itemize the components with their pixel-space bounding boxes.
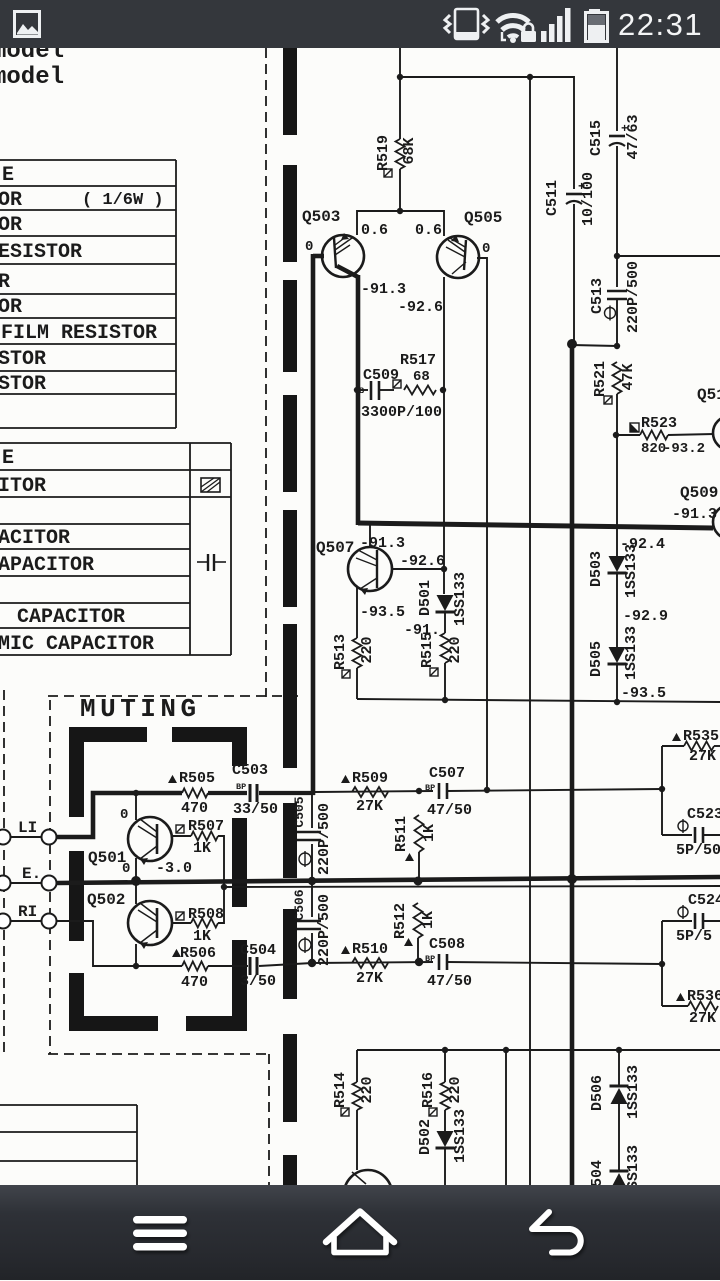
wire Q503 collector diagonal thick — [337, 266, 358, 277]
svg-text:3/50: 3/50 — [240, 973, 276, 990]
wire C515 down — [616, 146, 618, 256]
svg-text:C524: C524 — [688, 892, 720, 909]
wire thick E bus — [57, 877, 720, 883]
svg-text:R521: R521 — [592, 361, 609, 397]
svg-text:MIC CAPACITOR: MIC CAPACITOR — [0, 633, 154, 656]
node bracket R535 — [659, 786, 665, 792]
wire Q505 collector down — [443, 277, 445, 594]
svg-text:C508: C508 — [429, 936, 465, 953]
wire C511 down — [573, 204, 575, 344]
wire R535 lead — [662, 745, 684, 747]
wire R506 to C504 — [208, 965, 248, 967]
wire Q501 base to R507 — [172, 835, 191, 837]
node C513 bottom — [614, 343, 620, 349]
label R519 marker — [384, 169, 392, 177]
node thick supply corner — [567, 339, 577, 349]
svg-text:0: 0 — [305, 239, 313, 255]
wire RI to R506 corner — [57, 921, 136, 966]
wire D506 to D504 — [618, 1104, 620, 1171]
node R523 junction — [613, 432, 619, 438]
transistor Q504 partial — [344, 1170, 392, 1218]
svg-text:R509: R509 — [352, 770, 388, 787]
svg-text:C513: C513 — [589, 278, 606, 314]
svg-text:R519: R519 — [375, 135, 392, 171]
dashed muting region left edge — [49, 700, 51, 1054]
wire RI terminal link — [11, 920, 41, 922]
wire D503 to D505 — [616, 574, 618, 647]
node bracket C524 — [659, 961, 665, 967]
label R510 — [341, 946, 350, 954]
terminal LI inner — [42, 830, 57, 845]
label R512 marker — [404, 938, 413, 946]
wire x617 bus crossing — [616, 435, 618, 556]
resistor R508 — [191, 919, 218, 928]
symbol electrolytic cap in legend — [201, 478, 220, 492]
svg-text:ACITOR: ACITOR — [0, 527, 70, 550]
wire bracket C524 R536 — [661, 921, 663, 1006]
icon vibrate — [455, 9, 478, 39]
label R535 — [672, 733, 681, 741]
resistor R523 — [640, 431, 668, 440]
svg-text:+: + — [621, 122, 628, 136]
svg-text:220: 220 — [359, 1076, 376, 1103]
heavy dashed shield line vertical — [283, 44, 297, 1185]
icon wifi with lock — [497, 16, 529, 37]
svg-text:22:31: 22:31 — [618, 7, 703, 42]
svg-text:Q503: Q503 — [302, 208, 340, 226]
label R506 — [172, 949, 181, 957]
capacitor C524 — [694, 913, 697, 929]
dashed border vertical bottom right — [268, 1054, 270, 1185]
wire C508 right — [447, 962, 662, 964]
svg-text:MUTING: MUTING — [80, 694, 201, 724]
svg-text:R511: R511 — [393, 816, 410, 852]
svg-text:BP: BP — [425, 954, 435, 964]
svg-text:470: 470 — [181, 974, 208, 991]
capacitor C523 — [694, 827, 697, 843]
svg-text:-92.6: -92.6 — [398, 299, 443, 316]
capacitor C506 — [297, 920, 321, 923]
svg-text:Q501: Q501 — [88, 849, 126, 867]
wire Q501 emitter to bus — [135, 858, 137, 881]
svg-text:R508: R508 — [188, 906, 224, 923]
wire R523 to Q511 — [668, 434, 714, 435]
wire R507 to junction — [218, 836, 224, 887]
diode D502 — [437, 1131, 454, 1147]
wire C523 right — [703, 834, 720, 836]
svg-text:-93.5: -93.5 — [360, 604, 405, 621]
svg-text:47/50: 47/50 — [427, 802, 472, 819]
svg-text:Q509: Q509 — [680, 484, 718, 502]
svg-text:C504: C504 — [240, 942, 276, 959]
svg-text:R523: R523 — [641, 415, 677, 432]
svg-text:C503: C503 — [232, 762, 268, 779]
nav icon home — [326, 1212, 394, 1253]
transistor Q501 — [128, 817, 172, 865]
label R515 marker — [430, 668, 438, 676]
svg-text:STOR: STOR — [0, 348, 46, 371]
svg-text:-92.6: -92.6 — [400, 553, 445, 570]
dashed left page edge — [3, 690, 5, 1052]
svg-text:47K: 47K — [620, 363, 637, 390]
svg-text:-91.3: -91.3 — [360, 535, 405, 552]
resistor R510 — [352, 958, 388, 968]
wire thick supply down — [570, 344, 575, 1185]
table bottom left — [0, 1105, 137, 1185]
wire Q505 emitter right — [477, 258, 487, 790]
terminal E outer — [0, 876, 11, 891]
wire R515 bottom — [444, 663, 446, 700]
label C523 marker — [678, 821, 688, 831]
label R536 — [676, 993, 685, 1001]
svg-text:R535: R535 — [683, 728, 719, 745]
svg-text:D503: D503 — [588, 551, 605, 587]
wire R514 to Q504 — [356, 1110, 358, 1170]
wire C524 right — [703, 920, 720, 922]
capacitor C505 — [297, 831, 321, 834]
resistor R515 — [441, 633, 450, 663]
svg-text:220P/500: 220P/500 — [316, 803, 333, 875]
wire LI thick to corner — [57, 793, 182, 837]
dashed muting region top edge — [48, 695, 303, 697]
wire to C513 — [616, 256, 618, 287]
wire Q503 emitter thick left — [313, 254, 324, 259]
node Q501-Q502 bus junction — [131, 876, 141, 886]
svg-text:ESISTOR: ESISTOR — [0, 241, 82, 264]
svg-text:220: 220 — [447, 1076, 464, 1103]
resistor R512 — [414, 903, 423, 938]
svg-text:-93.2: -93.2 — [663, 441, 705, 457]
capacitor C511 — [566, 193, 582, 196]
svg-text:BP: BP — [425, 783, 435, 793]
wire C507 right — [447, 789, 662, 791]
resistor R514 — [353, 1082, 362, 1110]
transistor Q503 — [322, 233, 364, 277]
svg-text:220: 220 — [447, 636, 464, 663]
label C513 marker — [605, 308, 616, 319]
terminal LI outer — [0, 830, 11, 845]
icon signal bars — [541, 8, 571, 42]
svg-text:68K: 68K — [401, 137, 418, 164]
terminal RI outer — [0, 914, 11, 929]
diode D504 partial — [610, 1170, 629, 1173]
capacitor C507 — [425, 783, 447, 799]
svg-text:RI: RI — [18, 903, 37, 921]
node y256 — [614, 253, 620, 259]
wire D505 down — [616, 665, 618, 702]
svg-text:220P/500: 220P/500 — [316, 894, 333, 966]
resistor R505 — [182, 789, 208, 798]
svg-text:( 1/6W ): ( 1/6W ) — [82, 191, 164, 210]
resistor R519 — [396, 139, 405, 169]
svg-text:LI: LI — [18, 819, 37, 837]
svg-text:27K: 27K — [689, 1010, 716, 1027]
wire D506 top lead — [618, 1050, 620, 1086]
svg-text:R507: R507 — [188, 818, 224, 835]
label R521 marker — [604, 396, 612, 404]
wire C523 lead — [662, 834, 692, 836]
diode D503 — [609, 556, 626, 572]
svg-text:R512: R512 — [392, 903, 409, 939]
wire C524 lead — [662, 920, 692, 922]
label R514 marker — [341, 1108, 349, 1116]
svg-text:C523: C523 — [687, 806, 720, 823]
svg-text:-91.3: -91.3 — [672, 506, 717, 523]
wire node line y790 — [315, 791, 433, 792]
dashed muting region bottom edge — [48, 1053, 269, 1055]
label R508 marker — [176, 912, 184, 920]
capacitor C504 — [250, 957, 257, 975]
node Q502 emitter junction — [133, 963, 139, 969]
capacitor C503 — [236, 782, 257, 802]
svg-text:27K: 27K — [356, 798, 383, 815]
node base split — [397, 208, 403, 214]
label C524 marker — [678, 907, 688, 917]
svg-text:5P/50: 5P/50 — [676, 842, 720, 859]
svg-text:5P/5: 5P/5 — [676, 928, 712, 945]
node R514 corner — [356, 1050, 358, 1082]
wire node line y963 — [312, 962, 433, 963]
wire R535 right — [714, 745, 720, 747]
svg-text:R506: R506 — [180, 945, 216, 962]
svg-text:R514: R514 — [332, 1072, 349, 1108]
label C505 marker — [299, 853, 311, 865]
svg-text:R515: R515 — [419, 632, 436, 668]
transistor Q505 — [437, 235, 479, 278]
node R517 right — [440, 387, 446, 393]
wire C515 top — [616, 44, 618, 131]
wire Q502 emitter — [135, 944, 137, 966]
wire C505 bottom — [311, 844, 313, 881]
svg-text:1SS133: 1SS133 — [452, 572, 469, 626]
svg-text:0: 0 — [120, 807, 128, 823]
svg-text:R510: R510 — [352, 941, 388, 958]
resistor R509 — [352, 787, 388, 797]
resistor R506 — [182, 962, 208, 971]
svg-text:D502: D502 — [417, 1119, 434, 1155]
svg-text:33/50: 33/50 — [233, 801, 278, 818]
wire thick bus mid — [358, 523, 713, 528]
wire node right y256 — [617, 255, 720, 257]
wire D501 to R515 — [444, 613, 446, 633]
svg-text:OR: OR — [0, 189, 22, 212]
svg-text:+: + — [578, 180, 585, 194]
wire C513 down — [616, 299, 618, 346]
resistor R517 — [404, 386, 436, 395]
wire C505 top — [311, 795, 313, 828]
icon gallery — [0, 0, 720, 48]
wire C506 bottom — [311, 933, 313, 963]
wire thick vertical to bus corner — [356, 275, 361, 525]
svg-text:C505: C505 — [292, 796, 307, 827]
table capacitor legend text — [0, 447, 154, 656]
resistor R507 — [191, 832, 218, 841]
wire to R506 — [136, 965, 182, 967]
svg-text:BP: BP — [236, 782, 246, 792]
node R511 top — [416, 788, 422, 794]
svg-text:R513: R513 — [332, 634, 349, 670]
svg-text:D505: D505 — [588, 641, 605, 677]
label C506 marker — [299, 939, 311, 951]
svg-text:Q51: Q51 — [697, 386, 720, 404]
label R507 marker — [176, 825, 184, 833]
wire bracket R535 C523 — [661, 746, 663, 835]
diode D501 — [437, 595, 454, 611]
wire R511 bottom — [418, 852, 420, 881]
resistor R511 — [415, 815, 424, 852]
svg-text:1K: 1K — [193, 840, 211, 857]
wire R505 to C503 thick — [208, 791, 247, 795]
wire R523 left lead — [616, 434, 640, 436]
svg-text:0: 0 — [122, 861, 130, 877]
wire R508 to junction — [218, 889, 224, 923]
svg-text:0.6: 0.6 — [361, 222, 388, 239]
svg-text:-93.5: -93.5 — [621, 685, 666, 702]
wire E terminal link — [11, 882, 41, 884]
svg-text:1K: 1K — [193, 928, 211, 945]
node Q505 emitter bottom — [484, 787, 490, 793]
svg-text:R505: R505 — [179, 770, 215, 787]
svg-text:B: B — [359, 386, 364, 396]
svg-text:27K: 27K — [689, 748, 716, 765]
svg-text:220: 220 — [359, 636, 376, 663]
wire LI terminal link — [11, 836, 41, 838]
wire R516 top lead — [444, 1050, 446, 1082]
svg-text:470: 470 — [181, 800, 208, 817]
svg-text:C511: C511 — [544, 180, 561, 216]
wire long vertical x531 — [529, 77, 531, 1185]
wire R536 lead — [662, 1005, 688, 1007]
capacitor C509 — [359, 381, 394, 400]
svg-text:-92.9: -92.9 — [623, 608, 668, 625]
wire R513 bottom — [356, 668, 358, 699]
svg-text:D506: D506 — [589, 1075, 606, 1111]
node C509 left on thick wire — [354, 387, 360, 393]
wire Q502 collector to bus — [135, 881, 137, 904]
svg-text:R516: R516 — [420, 1072, 437, 1108]
svg-text:1SS133: 1SS133 — [623, 626, 640, 680]
wire bus to Q507 — [369, 525, 371, 548]
table resistor legend — [0, 160, 176, 428]
dashed region border vertical right of legend — [265, 48, 267, 697]
svg-text:Q502: Q502 — [87, 891, 125, 909]
capacitor C513 — [607, 290, 627, 293]
icon battery — [586, 9, 608, 42]
svg-text:68: 68 — [413, 369, 430, 385]
resistor R521 — [613, 362, 622, 394]
svg-text:STOR: STOR — [0, 373, 46, 396]
capacitor C508 — [425, 954, 447, 970]
svg-text:model: model — [0, 64, 64, 91]
terminal RI inner — [42, 914, 57, 929]
wire C504 right — [259, 963, 312, 966]
svg-text:1K: 1K — [420, 911, 437, 929]
svg-text:ITOR: ITOR — [0, 475, 46, 498]
label R511 marker — [405, 853, 414, 861]
transistor Q511 partial — [713, 416, 720, 450]
node supply split — [397, 74, 403, 80]
svg-text:0: 0 — [482, 241, 490, 257]
wire supply horizontal to C511 — [400, 77, 574, 189]
svg-text:-91.3: -91.3 — [361, 281, 406, 298]
table capacitor legend — [0, 443, 231, 655]
node branch x531 — [527, 74, 533, 80]
svg-text:27K: 27K — [356, 970, 383, 987]
capacitor C515 — [609, 135, 625, 138]
wire emitter sense line right — [224, 886, 720, 887]
transistor Q502 — [128, 901, 172, 949]
svg-text:C506: C506 — [292, 889, 307, 920]
wire Q507 collector right — [392, 568, 444, 570]
wire thick vertical Q503 to muting — [311, 254, 316, 795]
svg-text:R: R — [0, 271, 10, 294]
svg-text:220P/500: 220P/500 — [625, 261, 642, 333]
svg-text:E: E — [2, 164, 14, 187]
svg-text:0.6: 0.6 — [415, 222, 442, 239]
label R505 — [168, 775, 177, 783]
node D506 top — [616, 1047, 622, 1053]
label R516 marker — [429, 1108, 437, 1116]
transistor Q507 — [348, 547, 392, 595]
wire R516 to D502 — [444, 1110, 446, 1131]
svg-text:1K: 1K — [421, 824, 438, 842]
wire supply vertical top — [399, 44, 401, 139]
wire base rail — [357, 211, 444, 236]
wire R512 bottom — [417, 938, 419, 962]
svg-text:C515: C515 — [588, 120, 605, 156]
svg-text:APACITOR: APACITOR — [0, 554, 94, 577]
label R523 marker — [630, 423, 639, 432]
wire C506 top — [311, 881, 313, 917]
svg-text:Q507: Q507 — [316, 539, 354, 557]
svg-text:D501: D501 — [417, 580, 434, 616]
node Q507 collector — [441, 566, 447, 572]
node R511 bus — [414, 877, 423, 886]
node C506 bottom — [308, 959, 316, 967]
svg-text:1SS133: 1SS133 — [625, 1065, 642, 1119]
svg-text:C507: C507 — [429, 765, 465, 782]
terminal E inner — [42, 876, 57, 891]
nav icon back — [532, 1212, 581, 1253]
wire R521 down — [616, 394, 618, 435]
wire D502 down — [444, 1149, 446, 1185]
wire Q501 collector — [135, 793, 137, 820]
diode D505 — [609, 647, 626, 663]
svg-text:CAPACITOR: CAPACITOR — [17, 606, 125, 629]
muting shield box heavy dashed border — [69, 727, 247, 1031]
svg-text:47/50: 47/50 — [427, 973, 472, 990]
svg-text:3300P/100: 3300P/100 — [361, 404, 442, 421]
node R505 left junction — [133, 790, 139, 796]
transistor Q509 partial — [713, 505, 720, 539]
resistor R516 — [441, 1082, 450, 1110]
wire link to C513 node — [572, 345, 617, 346]
wire node line y700 — [357, 699, 720, 702]
wire x506 down — [505, 1050, 507, 1185]
wire Q507 emitter down — [356, 587, 358, 638]
svg-text:E: E — [2, 447, 14, 470]
node R507 R508 junction — [221, 884, 227, 890]
resistor R535 — [684, 742, 714, 751]
svg-text:-3.0: -3.0 — [156, 860, 192, 877]
svg-text:E.: E. — [22, 865, 41, 883]
svg-text:OR: OR — [0, 214, 22, 237]
table resistor legend text — [0, 164, 164, 396]
node x506 top — [503, 1047, 509, 1053]
node thick cross — [567, 874, 577, 884]
resistor R513 — [353, 638, 362, 668]
svg-text:Q505: Q505 — [464, 209, 502, 227]
